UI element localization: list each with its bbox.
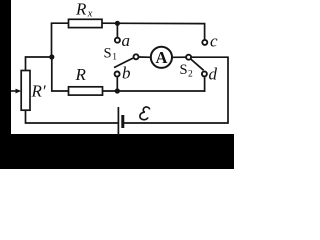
label EMF script E (139, 106, 149, 120)
resistor Rx (69, 19, 103, 27)
contact d terminal (202, 71, 207, 76)
black bottom margin band (0, 134, 234, 169)
wire: contact d stub (204, 77, 206, 91)
svg-text:d: d (209, 65, 218, 84)
wire: S1 pivot to ammeter left terminal (139, 56, 150, 58)
svg-text:S: S (180, 62, 188, 78)
switch S2 pivot circle (186, 55, 191, 60)
svg-text:a: a (122, 31, 131, 50)
svg-text:b: b (122, 64, 131, 83)
rheostat R' box (21, 71, 30, 111)
contact b terminal (115, 72, 120, 77)
wire: left vertical from junction down and right to R left terminal (52, 57, 69, 91)
wire: contact b stub (116, 77, 118, 91)
switch S2 lever (191, 59, 204, 70)
contact a terminal (115, 38, 120, 43)
wire: top-left corner to Rx left terminal (52, 23, 69, 57)
switch S1 lever (114, 58, 133, 68)
wire: R' bottom down to bottom rail (26, 110, 118, 123)
switch S1 pivot circle (134, 54, 139, 59)
wire: node J1 down to contact a (116, 23, 118, 37)
wire: bottom rail right from battery to right border up to S2 throw (124, 57, 228, 123)
node junction dot (left, R'/R) (49, 54, 54, 59)
svg-text:x: x (87, 9, 93, 20)
svg-text:A: A (155, 48, 167, 67)
resistor R (69, 87, 103, 95)
wire: ammeter right terminal to S2 pivot (172, 56, 186, 58)
svg-text:S: S (104, 46, 112, 62)
svg-text:c: c (210, 32, 218, 51)
black left margin band (0, 0, 11, 169)
battery cell long plate (117, 107, 119, 135)
node junction dot (right of R, below b) (115, 88, 120, 93)
svg-text:2: 2 (188, 70, 193, 80)
svg-text:1: 1 (112, 53, 117, 63)
contact c terminal (202, 40, 207, 45)
wire: Rx right terminal to top-right corner, down to contact c (102, 23, 205, 39)
ammeter U1 circle (151, 47, 172, 68)
wire: R' top to junction (26, 57, 52, 71)
svg-text:R: R (75, 65, 87, 84)
svg-text:R: R (75, 0, 87, 19)
rheostat R' wiper arrow (11, 89, 21, 94)
svg-text:R′: R′ (31, 82, 46, 101)
wire: R right terminal to below d (103, 90, 205, 92)
battery cell short thick plate (121, 115, 124, 128)
node J1 junction dot (top) (115, 21, 120, 26)
